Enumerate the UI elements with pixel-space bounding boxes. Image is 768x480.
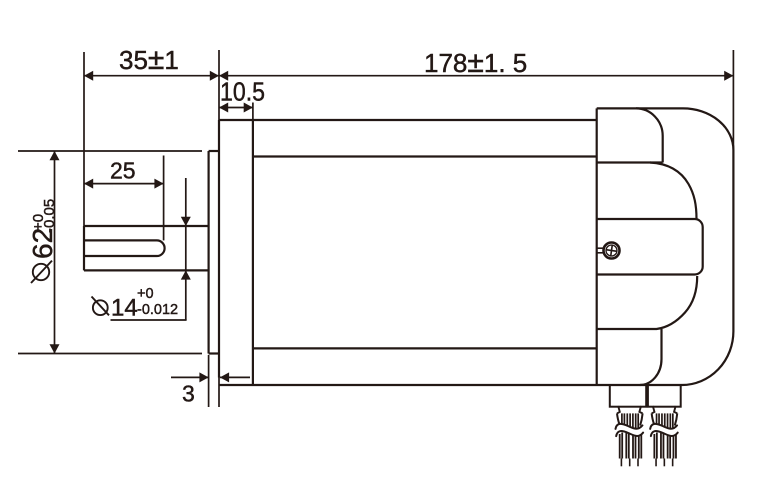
screw head tick xyxy=(597,247,604,249)
end cap bottom small cap xyxy=(640,329,662,385)
ext line D62 bottom xyxy=(18,353,202,355)
end cap middle arc bottom xyxy=(597,276,698,329)
dimensions xyxy=(18,50,733,407)
dim 3 right arrow line xyxy=(220,376,250,378)
svg-text:14: 14 xyxy=(111,295,138,322)
dim line 10.5 xyxy=(219,107,253,109)
dim line 178 xyxy=(219,75,733,77)
terminal box xyxy=(597,219,703,275)
ext line right (x=733.4) xyxy=(732,50,734,152)
dim line D14 xyxy=(185,178,187,320)
ext line 10.5 right (x=252.9) xyxy=(252,103,254,121)
boss top edge xyxy=(209,150,219,152)
wire gland right xyxy=(648,385,681,407)
boss bottom edge xyxy=(209,352,219,354)
wire bundle right xyxy=(650,406,678,466)
dim line D62 xyxy=(54,151,56,354)
dim line 35 xyxy=(84,75,219,77)
ext line boss-left below (x=208.6) xyxy=(208,355,210,407)
text D62 group (rotated) xyxy=(27,199,58,283)
arrowheads xyxy=(50,71,734,383)
25 right xyxy=(154,179,163,189)
ext line 25 right xyxy=(163,156,165,241)
shaft left end face xyxy=(83,226,85,270)
svg-text:35±1: 35±1 xyxy=(119,43,179,76)
wire bundle left xyxy=(616,406,644,466)
svg-text:-0.05: -0.05 xyxy=(41,199,58,233)
motor body right edge xyxy=(596,108,598,385)
end cap outer profile xyxy=(597,108,734,385)
body inner top line xyxy=(253,155,597,157)
svg-text:25: 25 xyxy=(110,158,136,184)
D14 bottom (points up) xyxy=(181,270,191,279)
flange right edge xyxy=(252,120,254,385)
svg-text:178±1. 5: 178±1. 5 xyxy=(424,46,527,79)
svg-text:+0: +0 xyxy=(137,286,154,302)
motor body bottom edge / end-cap bottom xyxy=(219,384,682,386)
ext line D62 top xyxy=(18,150,202,152)
shaft bottom edge xyxy=(84,269,209,271)
motor body top edge xyxy=(219,119,597,121)
D62 phi symbol xyxy=(33,264,49,280)
end cap shape1 bottom/shape2 top line xyxy=(597,161,663,163)
35 left xyxy=(84,71,93,81)
boss left edge xyxy=(208,151,210,354)
svg-text:3: 3 xyxy=(182,381,195,407)
10.5 left xyxy=(219,103,228,113)
dim 3 left arrow line xyxy=(171,376,209,378)
178 left xyxy=(219,71,228,81)
ext line flange-left (x=219) above body xyxy=(218,50,220,120)
svg-text:10.5: 10.5 xyxy=(220,77,265,107)
35 right xyxy=(210,71,219,81)
ext line left (x=84) xyxy=(83,52,85,226)
leader D14 xyxy=(111,319,187,321)
flange left edge xyxy=(218,120,220,378)
svg-text:-0.012: -0.012 xyxy=(137,302,178,318)
end cap top small cap xyxy=(636,108,663,162)
25 left xyxy=(84,179,93,189)
body inner bottom line xyxy=(253,347,597,349)
text D14 group xyxy=(92,286,179,322)
ext line flange-left below (x=219) xyxy=(218,378,220,408)
wire gland left xyxy=(610,385,646,407)
178 right xyxy=(724,71,733,81)
shaft top edge xyxy=(84,225,209,227)
screw head xyxy=(604,243,620,259)
D14 top (points down) xyxy=(181,217,191,226)
3 left (points right) xyxy=(199,372,208,382)
D14 phi symbol xyxy=(93,300,108,315)
D62 top xyxy=(50,151,60,160)
D62 bottom xyxy=(50,344,60,353)
10.5 right xyxy=(244,103,253,113)
3 right (points left) xyxy=(220,372,229,382)
end cap middle arc top xyxy=(650,163,697,220)
dimension texts xyxy=(119,43,527,107)
keyway slot xyxy=(84,240,165,256)
dim line 25 xyxy=(84,183,164,185)
